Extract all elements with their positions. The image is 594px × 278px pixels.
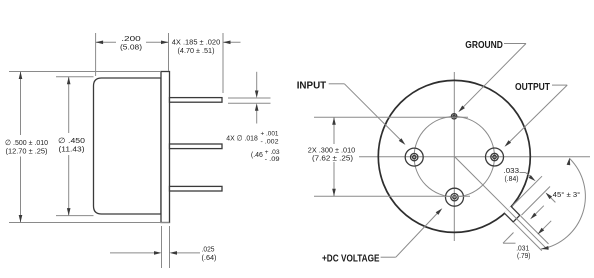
- right view: pin bolt circle: [414, 117, 494, 197]
- dimension 4X .185 (4.70) lead length: [222, 33, 224, 93]
- lead 2 (middle): [170, 144, 223, 149]
- dimension .031 (.79) tab width: [521, 216, 549, 244]
- index tab at 45 deg: [504, 206, 520, 222]
- svg-text:.200: .200: [121, 34, 141, 43]
- svg-text:- .09: - .09: [265, 156, 281, 163]
- svg-text:(4.70 ± .51): (4.70 ± .51): [178, 46, 215, 55]
- svg-text:4X ∅ .018: 4X ∅ .018: [226, 134, 257, 143]
- dimension 2X .300 (7.62) pin spacing: [314, 116, 468, 118]
- dimension 4X dia .018 lead diameter: [228, 97, 271, 99]
- svg-text:+ .03: + .03: [265, 149, 280, 156]
- svg-text:(7.62 ± .25): (7.62 ± .25): [312, 154, 353, 163]
- right pin (OUTPUT): [486, 148, 504, 166]
- left view: can body side outline: [94, 78, 162, 214]
- svg-text:- .002: - .002: [261, 138, 279, 145]
- angular dimension 45 deg +/- 3 deg: [541, 159, 585, 250]
- right view: can outline circle: [378, 80, 530, 232]
- lead 3 (bottom): [170, 186, 223, 191]
- svg-text:(11.43): (11.43): [59, 144, 86, 153]
- right view: 45 deg index line: [454, 156, 547, 249]
- dimension .200 (5.08) can length: [95, 33, 97, 76]
- lead 1 (top): [170, 98, 223, 103]
- dimension .025 (.64) flange thickness: [161, 226, 163, 268]
- svg-text:+DC VOLTAGE: +DC VOLTAGE: [322, 253, 380, 265]
- left pin (INPUT): [405, 148, 423, 166]
- svg-text:(12.70 ± .25): (12.70 ± .25): [6, 146, 48, 155]
- dimension dia .500 (12.70) flange diameter: [9, 71, 161, 73]
- svg-text:+ .001: + .001: [261, 131, 279, 138]
- svg-text:45° ± 3°: 45° ± 3°: [553, 190, 581, 199]
- svg-text:OUTPUT: OUTPUT: [515, 81, 550, 93]
- svg-text:INPUT: INPUT: [297, 80, 327, 92]
- svg-text:(5.08): (5.08): [120, 43, 143, 52]
- right view: vertical centerline: [453, 72, 455, 241]
- svg-text:(.46: (.46: [251, 150, 263, 159]
- bottom pin (+DC): [446, 188, 464, 206]
- svg-text:GROUND: GROUND: [465, 39, 503, 51]
- left view: mounting flange: [161, 72, 170, 223]
- svg-text:(.84): (.84): [505, 174, 519, 183]
- dimension dia .450 (11.43) body diameter: [56, 76, 94, 78]
- dimension .033 (.84) tab length: [512, 176, 542, 206]
- svg-text:(.79): (.79): [517, 251, 531, 260]
- ground index pin: [451, 114, 456, 119]
- svg-text:(.64): (.64): [202, 253, 217, 262]
- right view: horizontal centerline: [359, 156, 590, 158]
